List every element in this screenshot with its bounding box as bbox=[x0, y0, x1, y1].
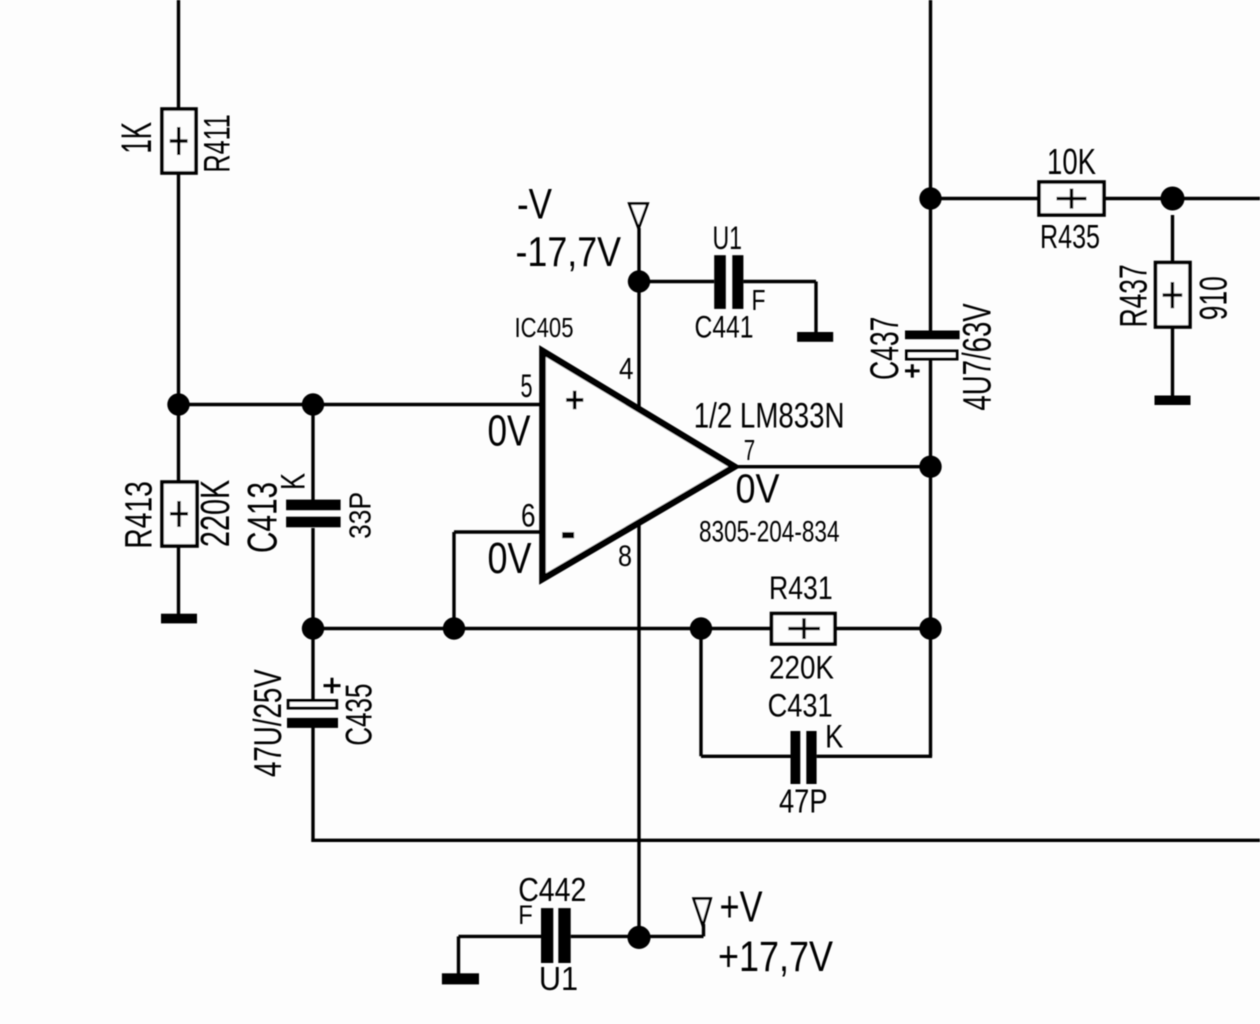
resistor R411 bbox=[162, 109, 196, 173]
wire bbox=[311, 727, 314, 842]
wire bbox=[179, 403, 543, 406]
wire bbox=[699, 629, 702, 757]
resistor R413 bbox=[162, 482, 197, 546]
svg-text:+V: +V bbox=[720, 883, 764, 932]
node (C413 top) bbox=[302, 393, 324, 415]
svg-text:-17,7V: -17,7V bbox=[516, 228, 622, 275]
svg-text:U1: U1 bbox=[713, 220, 743, 256]
ground (below R437) bbox=[1155, 396, 1191, 406]
svg-text:7: 7 bbox=[744, 435, 755, 467]
resistor R437 plus mark bbox=[1163, 282, 1183, 308]
op-amp plus input mark bbox=[566, 391, 583, 410]
op-amp U1 IC405 triangle bbox=[543, 351, 735, 579]
svg-text:C431: C431 bbox=[768, 688, 833, 724]
svg-text:8: 8 bbox=[618, 540, 632, 573]
node (R431 right) bbox=[919, 617, 941, 639]
svg-text:+17,7V: +17,7V bbox=[718, 934, 834, 981]
svg-text:47P: 47P bbox=[779, 784, 828, 821]
svg-text:F: F bbox=[752, 285, 766, 317]
wire bbox=[814, 282, 817, 334]
capacitor C441 plates bbox=[714, 255, 726, 309]
wire bbox=[1104, 197, 1260, 200]
wire bbox=[454, 530, 542, 533]
svg-text:C437: C437 bbox=[863, 317, 907, 380]
node (inverting input branch) bbox=[443, 617, 465, 639]
op-amp minus input mark bbox=[562, 532, 574, 538]
wire bbox=[929, 0, 932, 331]
svg-text:R413: R413 bbox=[117, 481, 160, 548]
wire bbox=[931, 197, 1040, 200]
svg-text:910: 910 bbox=[1193, 276, 1236, 320]
svg-text:220K: 220K bbox=[769, 649, 834, 686]
node (C437 top) bbox=[919, 187, 941, 209]
resistor R413 plus mark bbox=[170, 501, 188, 527]
node (+V rail) bbox=[627, 926, 650, 949]
svg-text:K: K bbox=[825, 719, 844, 755]
svg-text:R411: R411 bbox=[196, 114, 237, 172]
wire bbox=[1171, 327, 1174, 397]
wire bbox=[459, 935, 542, 938]
capacitor C435 plus mark bbox=[324, 678, 341, 694]
resistor R431 plus mark bbox=[788, 618, 820, 639]
node (C413/C435 junction) bbox=[302, 617, 324, 639]
wire bbox=[177, 173, 180, 482]
wire bbox=[701, 755, 791, 758]
wire bbox=[743, 280, 816, 283]
node (R411/R413 junction) bbox=[167, 393, 189, 415]
svg-text:U1: U1 bbox=[539, 960, 578, 997]
resistor R437 bbox=[1156, 263, 1191, 328]
capacitor C437 plus mark bbox=[905, 364, 920, 377]
svg-text:R437: R437 bbox=[1113, 264, 1156, 327]
svg-text:C413: C413 bbox=[240, 482, 286, 553]
svg-text:0V: 0V bbox=[488, 407, 532, 456]
resistor R431 bbox=[772, 614, 836, 645]
svg-text:1/2 LM833N: 1/2 LM833N bbox=[694, 397, 845, 436]
wire bbox=[734, 465, 931, 468]
resistor R411 plus mark bbox=[170, 127, 188, 155]
capacitor C437 plates (polarized) bbox=[905, 331, 960, 340]
wire bbox=[177, 0, 180, 109]
svg-text:F: F bbox=[518, 900, 533, 930]
wire bbox=[311, 528, 314, 700]
wire bbox=[311, 405, 314, 501]
svg-text:C435: C435 bbox=[339, 684, 380, 746]
svg-text:220K: 220K bbox=[192, 480, 238, 547]
svg-text:0V: 0V bbox=[488, 534, 533, 583]
svg-text:R431: R431 bbox=[769, 570, 833, 606]
wire bbox=[1171, 215, 1174, 263]
wire bbox=[929, 361, 932, 757]
wire bbox=[457, 936, 460, 974]
capacitor C435 plates (polarized) bbox=[288, 701, 337, 709]
wire bbox=[311, 839, 1260, 842]
svg-text:33P: 33P bbox=[343, 492, 378, 539]
wire bbox=[702, 924, 705, 936]
svg-text:10K: 10K bbox=[1047, 141, 1096, 182]
svg-text:-V: -V bbox=[517, 182, 553, 229]
svg-text:6: 6 bbox=[521, 498, 536, 534]
ground (below R413) bbox=[161, 614, 197, 624]
ground (C441) bbox=[797, 332, 833, 342]
wire bbox=[817, 755, 933, 758]
svg-text:C441: C441 bbox=[695, 309, 754, 345]
svg-text:4U7/63V: 4U7/63V bbox=[956, 303, 1000, 411]
node (R431 left) bbox=[690, 617, 712, 639]
node (op-amp output) bbox=[919, 456, 941, 478]
resistor R435 bbox=[1039, 182, 1104, 215]
wire bbox=[452, 532, 455, 629]
wire bbox=[571, 935, 704, 938]
svg-text:K: K bbox=[274, 473, 312, 490]
wire bbox=[835, 627, 931, 630]
resistor R435 plus mark bbox=[1057, 189, 1087, 209]
ground (C442) bbox=[442, 973, 479, 984]
wire bbox=[177, 546, 180, 616]
svg-text:4: 4 bbox=[619, 352, 634, 386]
capacitor C442 plates bbox=[541, 908, 553, 963]
svg-text:IC405: IC405 bbox=[515, 311, 574, 343]
svg-text:1K: 1K bbox=[113, 122, 160, 154]
node (R435/R437 junction) bbox=[1161, 187, 1185, 211]
wire bbox=[637, 228, 640, 937]
svg-text:8305-204-834: 8305-204-834 bbox=[699, 517, 840, 549]
wire bbox=[639, 280, 714, 283]
svg-text:0V: 0V bbox=[736, 466, 781, 512]
wire bbox=[313, 627, 772, 630]
+V supply arrow bbox=[694, 899, 711, 926]
svg-text:47U/25V: 47U/25V bbox=[247, 669, 290, 777]
svg-text:5: 5 bbox=[521, 368, 533, 404]
-V supply arrow bbox=[629, 204, 648, 229]
node (-V rail) bbox=[628, 270, 650, 292]
svg-text:R435: R435 bbox=[1040, 219, 1100, 256]
capacitor C413 plates bbox=[286, 500, 341, 511]
capacitor C431 plates bbox=[791, 731, 801, 784]
